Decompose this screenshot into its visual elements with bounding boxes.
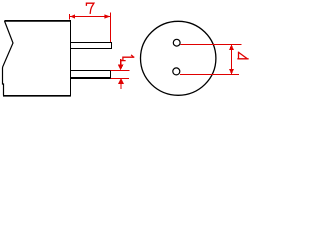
label 1 (rotated) xyxy=(121,55,134,60)
plug body right edge (mating face) xyxy=(70,20,72,96)
dimension 4 (hole spacing) xyxy=(180,45,242,75)
dimension 1 (pin thickness) extension lines xyxy=(111,59,130,89)
bottom pin hole xyxy=(173,68,180,75)
down arrow above pin xyxy=(120,59,122,65)
dimension line 7 (barrel length) xyxy=(70,13,111,43)
up arrow below pin xyxy=(120,83,122,89)
top pin hole xyxy=(173,39,180,46)
plug body break line (left edge) xyxy=(3,21,14,96)
plug body bottom edge xyxy=(3,95,71,97)
label 7 xyxy=(86,3,94,13)
label 4 (rotated) xyxy=(238,52,248,59)
plug body (side view): top edge xyxy=(3,20,71,96)
barrel (outer sleeve contact) xyxy=(71,43,112,49)
dimension 7 arrowheads xyxy=(70,14,110,18)
center pin xyxy=(71,70,111,79)
plug face (front view) outer circle xyxy=(141,21,216,95)
